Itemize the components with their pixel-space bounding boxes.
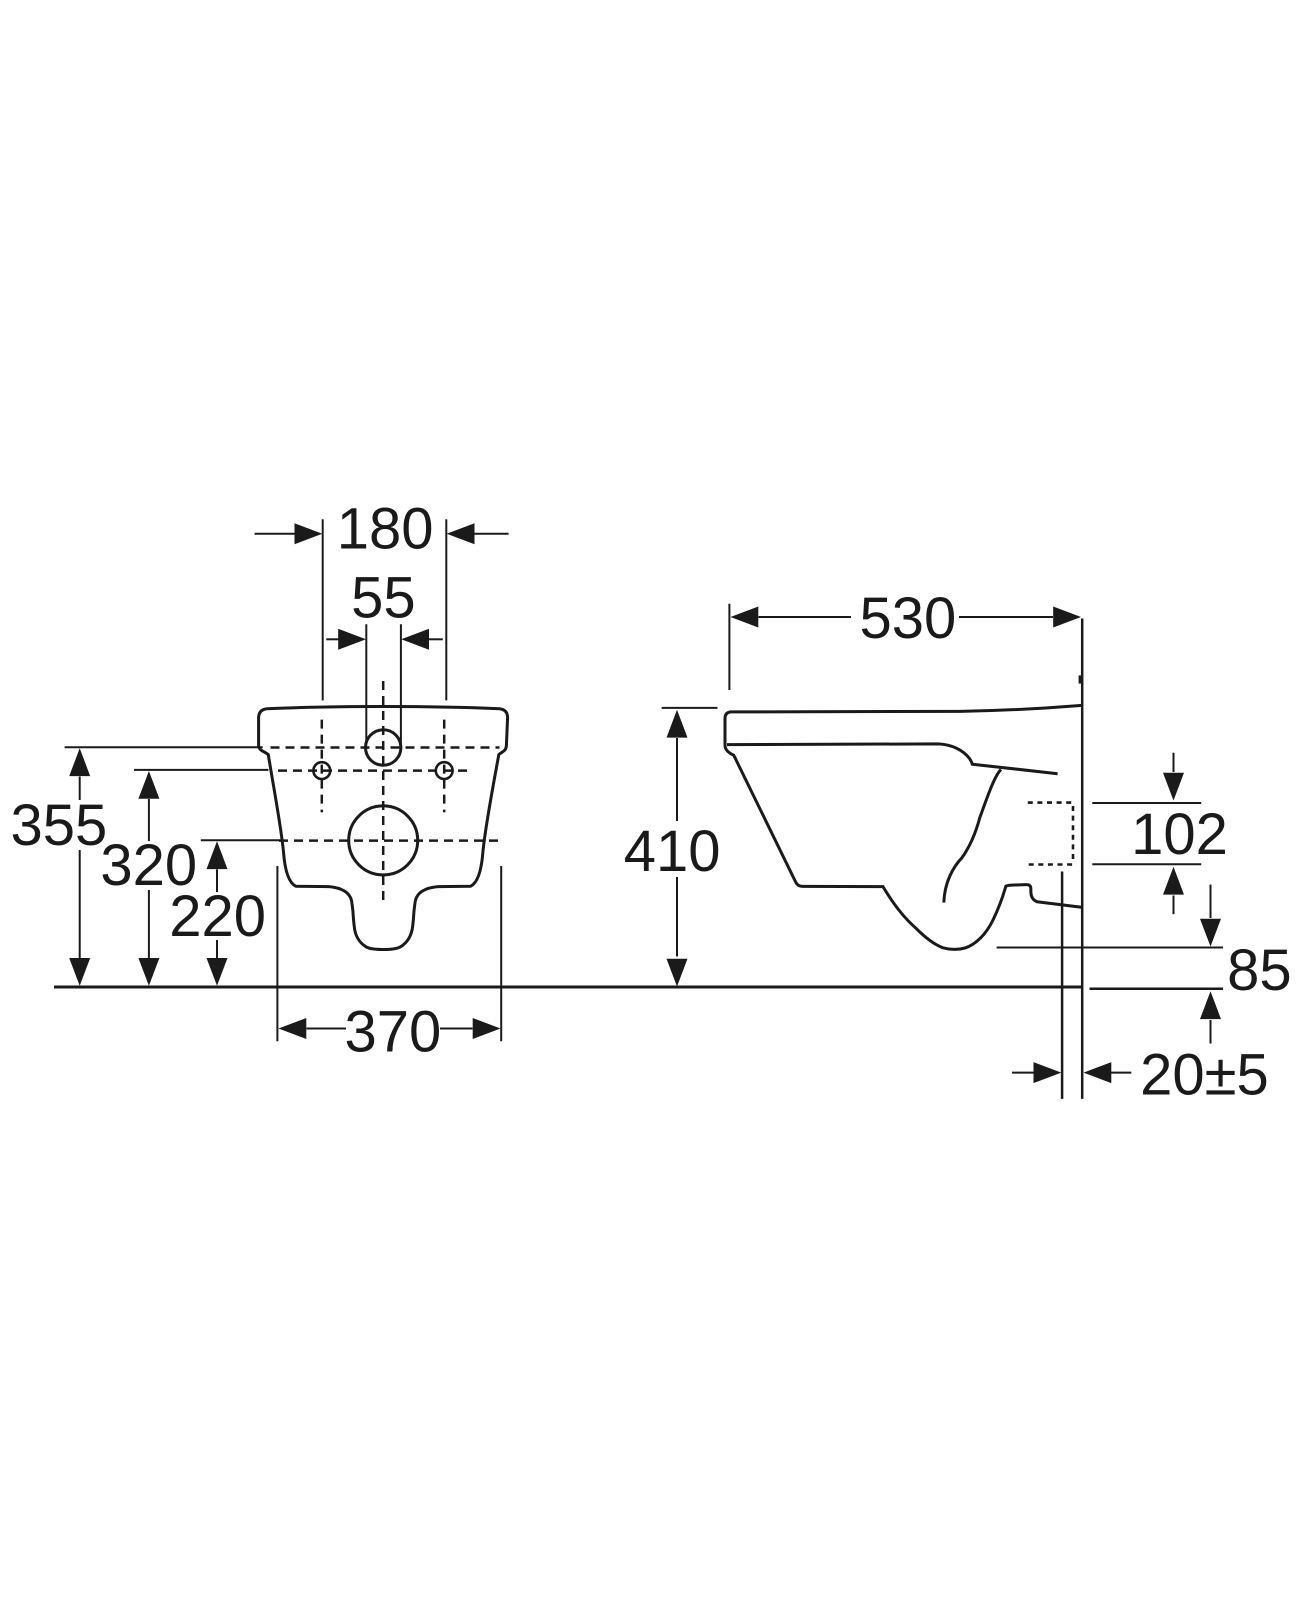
svg-text:55: 55 bbox=[351, 566, 416, 631]
svg-text:180: 180 bbox=[337, 496, 434, 561]
svg-text:530: 530 bbox=[860, 586, 957, 651]
svg-text:85: 85 bbox=[1227, 938, 1292, 1003]
svg-text:220: 220 bbox=[169, 884, 266, 949]
svg-text:102: 102 bbox=[1131, 802, 1228, 867]
svg-text:370: 370 bbox=[345, 1000, 442, 1065]
svg-text:355: 355 bbox=[11, 793, 108, 858]
svg-text:20±5: 20±5 bbox=[1140, 1042, 1269, 1107]
svg-text:410: 410 bbox=[624, 819, 721, 884]
